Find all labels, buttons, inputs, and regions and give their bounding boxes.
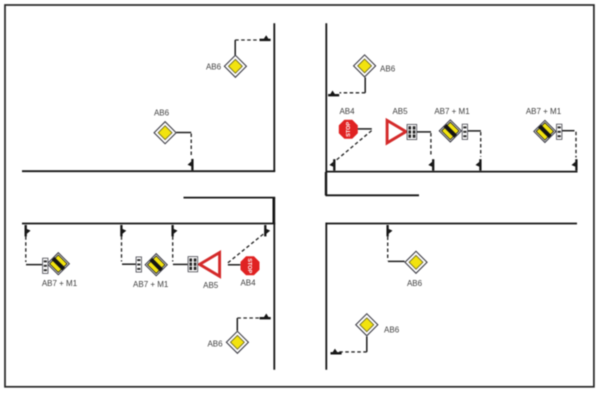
svg-text:AB6: AB6: [380, 65, 396, 74]
svg-text:AB6: AB6: [407, 279, 423, 288]
svg-text:STOP: STOP: [346, 121, 352, 136]
svg-text:AB6: AB6: [154, 108, 170, 117]
svg-text:STOP: STOP: [246, 258, 252, 273]
svg-text:AB6: AB6: [206, 63, 222, 72]
svg-text:AB5: AB5: [203, 281, 219, 290]
svg-text:AB7 + M1: AB7 + M1: [133, 280, 169, 289]
svg-text:AB6: AB6: [207, 340, 223, 349]
svg-text:AB7 + M1: AB7 + M1: [526, 107, 562, 116]
svg-text:AB7 + M1: AB7 + M1: [434, 107, 470, 116]
svg-text:AB4: AB4: [339, 107, 355, 116]
svg-text:AB5: AB5: [392, 107, 408, 116]
svg-text:AB6: AB6: [384, 326, 400, 335]
svg-text:AB7 + M1: AB7 + M1: [42, 279, 78, 288]
svg-text:AB4: AB4: [240, 279, 256, 288]
